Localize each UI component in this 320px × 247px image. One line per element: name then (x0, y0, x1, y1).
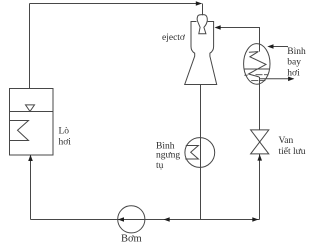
arrow: chilled water out of evaporator (right) (288, 77, 294, 82)
boiler vessel (Lò hơi) (10, 89, 54, 156)
boiler water level line (10, 111, 54, 113)
evaporator ellipse (Bình bay hơi) (244, 44, 270, 85)
arrow: into ejector nozzle (right) (196, 1, 202, 6)
wire: left riser down to boiler top (29, 4, 31, 89)
evaporator coil zigzag (249, 52, 267, 77)
evaporator liquid level chord (244, 68, 270, 70)
svg-text:Bình: Bình (287, 47, 306, 57)
condenser coil zigzag (185, 146, 198, 160)
arrow: bottom line toward pump (left) (164, 217, 170, 222)
evaporator liquid dashes row 1 (244, 74, 268, 77)
wire: ejector outlet down through condenser to bottom line (200, 85, 202, 220)
boiler heating coil zigzag (10, 121, 29, 141)
arrow: up into valve (up) (257, 154, 262, 160)
wire: boiler bottom feed line (30, 155, 32, 220)
wire: chilled water inlet line (270, 46, 288, 48)
svg-text:Van: Van (279, 136, 294, 146)
wire: suction line from evaporator to ejector (216, 28, 260, 52)
wire: chilled water outlet line (260, 78, 294, 80)
wire: valve to evaporator bottom (259, 77, 261, 130)
ejector nozzle (197, 15, 207, 34)
arrow: bottom line toward valve riser (right) (252, 217, 258, 222)
svg-text:Bơm: Bơm (121, 234, 142, 245)
svg-text:hơi: hơi (59, 138, 72, 148)
svg-text:ejectơ: ejectơ (162, 33, 186, 43)
wire: bottom return line (31, 219, 260, 221)
throttle valve (Van tiết lưu) (251, 130, 269, 154)
svg-text:ngưng: ngưng (156, 151, 180, 161)
ejector body (185, 22, 217, 85)
svg-text:bay: bay (287, 58, 301, 68)
pump circle (Bơm) (118, 206, 145, 233)
arrow: at pump inlet (left) (118, 217, 124, 222)
wire: top steam line from boiler to ejector nozzle (30, 3, 202, 5)
wire: right riser bottom line to valve (259, 154, 261, 220)
evaporator liquid dashes row 2 (251, 80, 265, 82)
svg-text:tụ: tụ (156, 161, 164, 171)
wire: nozzle supply drop (202, 4, 204, 16)
svg-text:tiết lưu: tiết lưu (279, 146, 306, 157)
arrow: suction into ejector (left) (215, 25, 221, 30)
arrow: into boiler bottom (up) (28, 155, 33, 161)
condenser circle (Bình ngưng tụ) (185, 138, 215, 168)
arrow: chilled water into evaporator (left) (267, 44, 273, 49)
boiler level indicator triangle (26, 105, 35, 112)
svg-text:Lò: Lò (59, 127, 70, 137)
